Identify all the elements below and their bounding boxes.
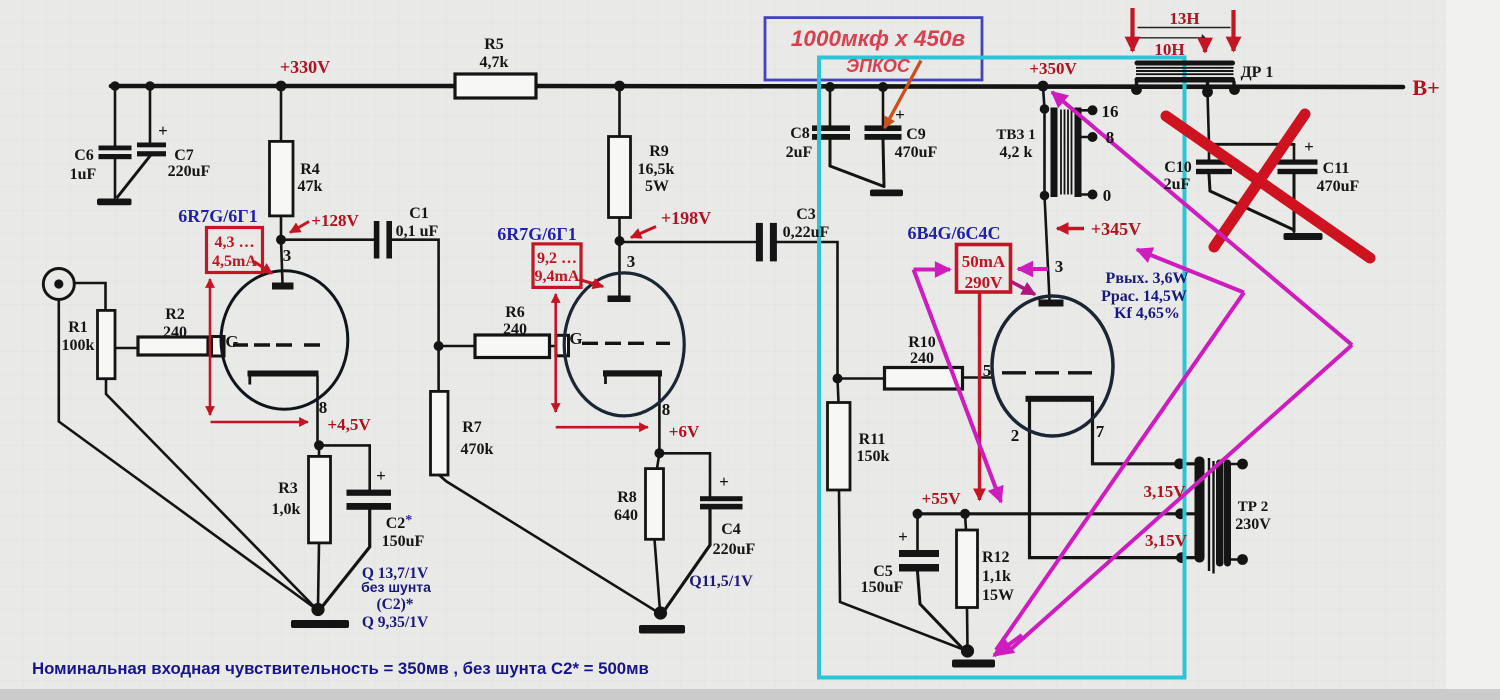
wire C5 top lead — [916, 514, 919, 550]
svg-text:R12: R12 — [982, 549, 1010, 566]
node dot C7 rail — [145, 81, 155, 91]
tube U3 grid dashed line — [1002, 371, 1092, 374]
ground bar C11 — [1284, 233, 1323, 240]
ground bar stage2 — [639, 625, 685, 634]
svg-text:100k: 100k — [62, 337, 95, 354]
svg-text:+: + — [1304, 137, 1314, 156]
wire C11 bottom lead — [1293, 174, 1296, 232]
wire R3 top lead — [318, 445, 321, 456]
node dot DR1 middle — [1202, 87, 1213, 98]
grid pin box tube2 — [556, 335, 569, 356]
svg-text:3,15V: 3,15V — [1145, 531, 1188, 550]
wire R7 top lead — [437, 346, 440, 391]
capacitor C8 plates — [812, 125, 850, 131]
wire tube2 plate lead — [618, 241, 621, 296]
node dot +198V — [615, 236, 625, 246]
svg-text:1,1k: 1,1k — [982, 568, 1011, 585]
svg-text:+: + — [898, 527, 908, 546]
wire TVZ1 to tube3 plate — [1045, 196, 1050, 300]
magenta arrow into 50mA box left — [914, 268, 951, 272]
wire tube3 filament pin2 to TP2 — [1030, 402, 1196, 558]
resistor R4 — [270, 141, 294, 216]
svg-text:13Н: 13Н — [1169, 9, 1199, 28]
wire R2 to grid pin — [208, 345, 212, 348]
wire TVZ1 tap 0 — [1082, 193, 1092, 196]
wire R1 bottom diagonal to ground — [106, 379, 318, 610]
svg-text:3: 3 — [627, 252, 636, 271]
svg-text:+55V: +55V — [922, 489, 962, 508]
resistor R5 — [455, 74, 536, 98]
wire C6 bottom lead — [114, 159, 117, 198]
tube2 cathode left tick — [604, 375, 607, 384]
red arrow +345V — [1057, 227, 1084, 230]
node dot grid node stage2 — [434, 341, 444, 351]
svg-text:+345V: +345V — [1091, 219, 1141, 239]
svg-text:Q 9,35/1V: Q 9,35/1V — [362, 614, 429, 631]
wire R12 bottom lead — [966, 608, 969, 651]
svg-text:3: 3 — [1055, 257, 1064, 276]
tube2 plate bar — [608, 296, 631, 303]
wire C9 top lead — [882, 87, 885, 125]
ground bar stage1 — [291, 620, 349, 628]
svg-text:G: G — [569, 329, 582, 348]
svg-text:2uF: 2uF — [786, 144, 813, 161]
svg-text:без шунта: без шунта — [361, 579, 431, 595]
svg-text:C6: C6 — [74, 147, 94, 164]
svg-text:C9: C9 — [906, 126, 926, 143]
label R12 — [982, 549, 1014, 604]
node dot C6 rail — [110, 81, 120, 91]
resistor R3 — [309, 456, 331, 543]
svg-text:4,3 …: 4,3 … — [215, 234, 255, 251]
svg-text:R2: R2 — [165, 306, 185, 323]
transformer TP2 winding — [1195, 457, 1232, 574]
wire tube3 filament pin7 to TP2 — [1093, 402, 1196, 464]
wire R8 top lead — [657, 453, 659, 468]
red line 50mA box to +55V node — [978, 292, 981, 500]
wire R11 top lead — [838, 379, 839, 403]
svg-text:1,0k: 1,0k — [272, 501, 301, 518]
node dot TVZ1 tap8 — [1088, 132, 1098, 142]
wire TP2 right terminal bottom — [1231, 558, 1242, 561]
wire B+ rail left segment — [111, 84, 458, 89]
capacitor C2 plates — [347, 490, 392, 496]
wire tube3 grid pin5 — [963, 376, 994, 379]
wire C8 bottom lead slanted to ground — [830, 140, 884, 187]
red box 4,3-4,5mA — [207, 228, 263, 273]
resistor R6 — [475, 335, 550, 358]
red arrow box2 to plate — [579, 280, 603, 287]
svg-text:(С2)*: (С2)* — [376, 596, 413, 613]
wire node to C4 — [663, 453, 710, 496]
svg-text:+198V: +198V — [661, 208, 711, 228]
wire R9 top lead — [618, 86, 621, 137]
wire C9 bottom lead — [883, 140, 884, 187]
svg-text:+6V: +6V — [669, 422, 700, 441]
orange arrow EPCOS to C9 — [885, 61, 922, 129]
svg-text:+128V: +128V — [311, 211, 359, 230]
tube1 cathode bar — [248, 371, 319, 377]
red voltage labels — [280, 9, 1440, 550]
svg-text:3,15V: 3,15V — [1143, 482, 1186, 501]
node dot TP2 right top — [1237, 459, 1248, 470]
node dot ground2 — [654, 606, 667, 619]
tube3 filament top bar — [1026, 396, 1095, 402]
resistor R10 — [885, 368, 963, 390]
svg-text:0,22uF: 0,22uF — [783, 224, 830, 241]
svg-text:R5: R5 — [484, 36, 504, 53]
svg-text:470uF: 470uF — [895, 144, 938, 161]
svg-text:+: + — [158, 121, 168, 140]
wire C7 bottom lead slanted — [118, 156, 151, 197]
wire C1 right lead — [392, 240, 439, 346]
svg-text:6B4G/6C4C: 6B4G/6C4C — [907, 223, 1000, 243]
tube U1 6R7G envelope — [221, 271, 348, 409]
red box 9,2-9,4mA — [533, 244, 581, 288]
svg-text:2: 2 — [1011, 426, 1020, 445]
capacitor C3 plates — [756, 223, 763, 262]
svg-text:240: 240 — [163, 324, 187, 341]
svg-text:47k: 47k — [298, 178, 323, 195]
red dim stage1 vertical — [209, 279, 212, 415]
wire tube1 cathode to node — [316, 377, 319, 446]
node dot TP2 left top — [1174, 458, 1185, 469]
tube U1 grid dashed line — [233, 343, 320, 346]
magenta arrow line +350V to V2 vertex — [1052, 92, 1352, 345]
red box 50mA/290V — [957, 245, 1011, 293]
svg-text:240: 240 — [503, 321, 527, 338]
wire TVZ1 primary left — [1043, 86, 1045, 196]
wire R3 bottom lead — [318, 543, 319, 606]
wire C11 top lead — [1293, 144, 1296, 159]
wire tube1 plate lead — [281, 240, 283, 283]
wire R6 left lead — [439, 345, 475, 348]
capacitor C1 plates — [374, 221, 380, 259]
svg-text:Ррас. 14,5W: Ррас. 14,5W — [1101, 288, 1187, 305]
wire C6 top lead — [114, 86, 117, 146]
grid pin box tube1 — [212, 337, 225, 357]
node dot +128V — [276, 235, 286, 245]
svg-text:3: 3 — [283, 246, 292, 265]
svg-text:R10: R10 — [908, 334, 936, 351]
wire R12 top lead — [965, 514, 966, 530]
node dot R9 rail — [614, 81, 625, 92]
wire TVZ1 tap 16 — [1082, 109, 1092, 112]
svg-text:9,2 …: 9,2 … — [537, 250, 577, 267]
wire C10/C11 top link — [1209, 143, 1294, 146]
svg-text:150uF: 150uF — [861, 579, 904, 596]
red dim stage2 horizontal — [556, 426, 648, 429]
svg-text:470uF: 470uF — [1317, 178, 1360, 195]
wire DR1 right stub — [1232, 82, 1235, 88]
svg-text:C3: C3 — [796, 206, 816, 223]
svg-text:Рвых. 3,6W: Рвых. 3,6W — [1106, 270, 1189, 287]
svg-text:150k: 150k — [857, 448, 890, 465]
svg-text:R6: R6 — [505, 304, 525, 321]
red arrow box1 to plate — [254, 262, 272, 274]
svg-text:4,2 k: 4,2 k — [1000, 144, 1033, 161]
wire TVZ1 tap 8 — [1082, 136, 1092, 139]
svg-text:2uF: 2uF — [1164, 176, 1191, 193]
wire tube2 cathode to node — [658, 377, 661, 454]
svg-text:C7: C7 — [174, 147, 194, 164]
wire R4 top lead — [280, 86, 283, 141]
wire +55V cathode rail to TP2 — [918, 512, 1196, 515]
wire R1 to R2 — [115, 347, 138, 350]
red box texts — [212, 234, 1006, 292]
node dot TP2 left middle — [1175, 508, 1186, 519]
svg-text:В+: В+ — [1412, 75, 1439, 100]
wire input connector down lead — [59, 300, 318, 611]
ground bar C8/C9 — [870, 190, 903, 197]
red dim stage2 vertical — [554, 294, 557, 412]
svg-text:640: 640 — [614, 507, 638, 524]
node dot C9 rail — [878, 82, 888, 92]
svg-text:6R7G/6Г1: 6R7G/6Г1 — [178, 206, 257, 226]
magenta line vertex to +55V arrow — [914, 270, 1002, 503]
wire B+ rail right segment — [534, 86, 1403, 87]
svg-text:220uF: 220uF — [713, 541, 756, 558]
svg-text:9,4mA: 9,4mA — [535, 268, 580, 285]
transformer TVZ1 winding — [1051, 108, 1082, 198]
svg-text:ТВЗ 1: ТВЗ 1 — [996, 127, 1035, 143]
tube U2 grid dashed line — [582, 342, 670, 345]
magenta line V1 to ground — [996, 293, 1244, 651]
svg-text:R1: R1 — [68, 319, 88, 336]
wire C2 bottom diagonal to ground — [322, 510, 370, 608]
dark magenta arrow box to cathode bar — [1011, 282, 1035, 295]
svg-text:10Н: 10Н — [1154, 40, 1184, 59]
svg-text:220uF: 220uF — [168, 163, 211, 180]
node dot +350V junction — [1038, 81, 1049, 92]
red arrow DR1 left — [1130, 8, 1134, 51]
wire R11 bottom diagonal to ground — [839, 490, 966, 651]
resistor R9 — [609, 137, 631, 218]
svg-text:+: + — [376, 466, 386, 485]
svg-text:4,5mA: 4,5mA — [212, 253, 257, 270]
svg-text:7: 7 — [1096, 422, 1105, 441]
wire C7 top lead — [149, 86, 152, 143]
svg-text:ЭПКОС: ЭПКОС — [846, 56, 911, 76]
node dot R10/R11/C3 — [833, 374, 843, 384]
svg-text:1000мкф x 450в: 1000мкф x 450в — [791, 26, 966, 51]
red arrow +128V — [290, 222, 309, 233]
wire C3 right lead down to R10 node — [777, 242, 838, 379]
node dot DR1 right — [1229, 84, 1240, 95]
svg-text:ДР 1: ДР 1 — [1241, 64, 1274, 81]
node dot TVZ1 tap0 — [1088, 190, 1098, 200]
wire +198V node to C3 — [620, 241, 756, 244]
svg-text:ТР 2: ТР 2 — [1238, 499, 1268, 515]
node dot ground1 — [311, 603, 324, 616]
node dot ground3 — [961, 644, 974, 657]
svg-text:8: 8 — [662, 400, 671, 419]
wire C5 bottom diagonal to ground — [918, 572, 967, 653]
svg-text:+330V: +330V — [280, 57, 330, 77]
wire DR1 middle tap — [1206, 82, 1209, 93]
capacitor C11 plates — [1278, 160, 1318, 165]
node dot C5 +55V — [913, 509, 923, 519]
red dim stage1 horizontal — [211, 421, 309, 424]
annotation box 1000uF (blue border) — [765, 18, 982, 80]
node dot TP2 left bottom — [1176, 552, 1187, 563]
resistor R2 — [138, 337, 208, 355]
svg-text:R3: R3 — [278, 480, 298, 497]
cyan highlight rectangle — [819, 58, 1185, 678]
svg-text:C8: C8 — [790, 125, 810, 142]
node dot TVZ1 primary bottom — [1040, 191, 1050, 201]
red X deletion mark over C10/C11 — [1166, 114, 1370, 258]
node dot cathode2 — [654, 448, 664, 458]
node dot TVZ1 tap16 — [1088, 105, 1098, 115]
tube3 plate bar — [1039, 300, 1064, 307]
choke DR1 winding — [1135, 61, 1236, 83]
svg-text:G: G — [225, 332, 238, 351]
red arrow DR1 middle — [1203, 38, 1207, 52]
svg-text:C11: C11 — [1323, 160, 1350, 177]
wire R7 bottom diagonal to ground — [439, 475, 659, 613]
svg-text:6R7G/6Г1: 6R7G/6Г1 — [497, 224, 576, 244]
svg-text:50mA: 50mA — [962, 252, 1006, 271]
wire R6 right lead to grid pin — [550, 345, 557, 348]
magenta arrow line to Rvyh (A2-V1) — [1137, 250, 1244, 293]
svg-text:1uF: 1uF — [70, 166, 97, 183]
wire DR1 left stub — [1135, 82, 1138, 88]
DR1 dimension line 13H — [1138, 27, 1231, 29]
svg-text:Q11,5/1V: Q11,5/1V — [689, 573, 753, 590]
svg-text:R9: R9 — [649, 143, 669, 160]
node dot C8 rail — [825, 82, 835, 92]
svg-text:0: 0 — [1103, 186, 1112, 205]
svg-text:290V: 290V — [965, 273, 1004, 292]
svg-text:+350V: +350V — [1029, 59, 1077, 78]
capacitor C5 plates — [899, 550, 939, 557]
resistor R12 — [957, 530, 978, 608]
capacitor C6 plates — [99, 146, 132, 151]
svg-text:+: + — [895, 105, 905, 124]
node dot TVZ1 primary top — [1040, 104, 1050, 114]
node dot R4 rail — [276, 81, 287, 92]
magenta big arrowhead at output ground — [994, 635, 1022, 656]
resistor R8 — [646, 469, 664, 540]
wire C8 top lead — [829, 87, 832, 125]
magenta line V2 vertex to ground — [1010, 345, 1352, 650]
svg-text:R7: R7 — [462, 419, 482, 436]
svg-text:C10: C10 — [1164, 159, 1192, 176]
svg-text:0,1 uF: 0,1 uF — [396, 223, 439, 240]
DR1 dimension line 10H — [1138, 37, 1203, 39]
svg-text:150uF: 150uF — [382, 533, 425, 550]
wire node to C2 — [321, 445, 370, 489]
svg-text:R11: R11 — [859, 431, 886, 448]
magenta arrow cathode3 into 50mA box right — [1018, 267, 1048, 271]
svg-text:5: 5 — [983, 361, 992, 380]
svg-text:Kf 4,65%: Kf 4,65% — [1114, 305, 1180, 322]
capacitor C10 plates — [1196, 160, 1232, 165]
wire +128V node to C1 — [281, 238, 374, 241]
wire C4 bottom diagonal to ground — [664, 510, 710, 612]
svg-text:16: 16 — [1102, 102, 1119, 121]
wire TP2 right terminal top — [1231, 463, 1242, 466]
resistor R1 — [98, 310, 116, 378]
resistor R7 — [431, 391, 449, 475]
tube U2 6R7G envelope — [564, 273, 684, 416]
svg-text:470k: 470k — [461, 441, 494, 458]
svg-text:R4: R4 — [300, 161, 320, 178]
resistor R11 — [828, 403, 851, 491]
svg-text:8: 8 — [1106, 128, 1115, 147]
blue tube labels — [178, 206, 1000, 244]
wire R10 left lead — [838, 377, 885, 380]
ground bar output stage — [952, 660, 995, 668]
tube1 cathode left tick — [248, 375, 251, 385]
node dot cathode1 — [314, 440, 324, 450]
dark blue notes — [361, 270, 1188, 631]
svg-text:C5: C5 — [873, 563, 893, 580]
svg-text:C4: C4 — [721, 521, 741, 538]
svg-text:Номинальная входная чувствител: Номинальная входная чувствительность = 3… — [32, 659, 649, 678]
svg-text:R8: R8 — [617, 489, 637, 506]
red arrow DR1 right — [1231, 10, 1235, 51]
svg-text:240: 240 — [910, 350, 934, 367]
ground bar C6/C7 — [97, 199, 132, 206]
wire C10 top lead — [1208, 92, 1210, 160]
svg-text:4,7k: 4,7k — [480, 54, 509, 71]
tube U3 6B4G envelope — [992, 296, 1113, 436]
capacitor C9 plates — [865, 125, 902, 131]
tube1 plate bar — [272, 283, 294, 290]
svg-text:5W: 5W — [645, 178, 669, 195]
node dot TP2 right bottom — [1237, 554, 1248, 565]
capacitor C4 plates — [700, 496, 743, 501]
wire input connector to R1 top — [74, 283, 106, 310]
wire R4 bottom lead to +128V node — [280, 216, 283, 240]
svg-text:15W: 15W — [982, 587, 1014, 604]
svg-text:230V: 230V — [1235, 516, 1271, 533]
black component labels — [62, 36, 1360, 604]
wire C10 bottom lead slanted — [1209, 174, 1293, 230]
input connector J1 — [43, 269, 74, 300]
red arrow +198V — [631, 227, 656, 238]
svg-text:16,5k: 16,5k — [638, 161, 675, 178]
wire R8 bottom lead — [655, 539, 661, 611]
svg-text:C1: C1 — [409, 205, 429, 222]
svg-text:+4,5V: +4,5V — [327, 415, 371, 434]
tube2 cathode bar — [603, 370, 662, 376]
capacitor C7 plates — [137, 143, 166, 148]
svg-text:+: + — [719, 472, 729, 491]
node dot DR1 left — [1131, 84, 1142, 95]
node dot R12 +55V — [960, 509, 970, 519]
svg-text:8: 8 — [319, 398, 328, 417]
wire R9 bottom lead to +198V node — [618, 218, 621, 242]
